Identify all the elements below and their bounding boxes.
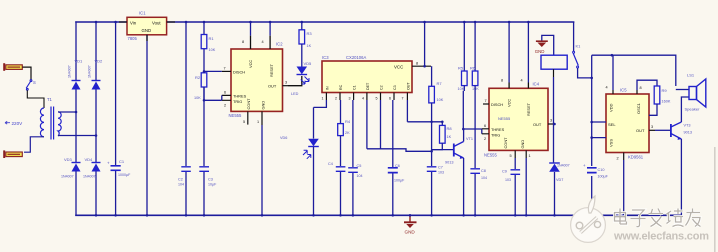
svg-text:2: 2 — [335, 97, 337, 101]
svg-text:VT1: VT1 — [466, 137, 473, 141]
svg-text:3: 3 — [349, 97, 351, 101]
svg-text:GND: GND — [535, 49, 545, 54]
svg-text:DISCH: DISCH — [491, 102, 503, 107]
svg-text:7: 7 — [402, 97, 404, 101]
svg-text:R6: R6 — [470, 66, 476, 71]
svg-text:104: 104 — [357, 174, 363, 178]
svg-text:6: 6 — [224, 91, 226, 95]
watermark logo circle — [571, 196, 606, 242]
transistor VT1 — [432, 137, 473, 165]
wire IC3 pin7 stub — [402, 93, 408, 122]
wire R1 to R2 — [203, 49, 205, 73]
wire C2 column — [185, 22, 187, 215]
svg-text:LS1: LS1 — [687, 73, 695, 78]
wire VT1 emitter column — [463, 158, 465, 215]
label ~220V — [5, 121, 23, 126]
svg-text:9013: 9013 — [684, 131, 692, 135]
svg-text:C3: C3 — [393, 85, 397, 90]
wire secondary bottom tap — [58, 135, 96, 137]
svg-text:R2: R2 — [195, 75, 201, 80]
wire supply to speaker top — [592, 55, 676, 86]
svg-text:R7: R7 — [437, 81, 443, 86]
diode VD2 — [88, 59, 104, 90]
svg-text:www.elecfans.com: www.elecfans.com — [613, 231, 709, 243]
svg-text:3: 3 — [285, 81, 287, 85]
watermark right border — [714, 147, 716, 252]
svg-text:IC1: IC1 — [139, 11, 146, 16]
op IC3 CX20106A body — [322, 55, 412, 93]
svg-text:VCC: VCC — [507, 99, 512, 107]
svg-text:OUT: OUT — [636, 128, 645, 133]
svg-text:C1: C1 — [119, 159, 125, 164]
wire IC4 pin3 OUT — [548, 119, 554, 125]
svg-text:DET: DET — [366, 82, 370, 90]
wire IC1 gnd column — [146, 35, 148, 216]
svg-text:8: 8 — [242, 40, 244, 44]
svg-text:7805: 7805 — [128, 36, 138, 41]
svg-text:RESET: RESET — [269, 63, 274, 77]
resistor R8 — [432, 122, 453, 150]
resistor R7 — [429, 66, 444, 166]
diode VD3 — [61, 157, 81, 179]
switch S1 — [26, 80, 32, 91]
svg-text:TRIG: TRIG — [233, 99, 242, 104]
capacitor C3 — [199, 167, 217, 216]
op IC5 KD9561 body — [606, 88, 649, 160]
wire C1 column — [115, 22, 117, 215]
svg-text:100μF: 100μF — [598, 175, 609, 179]
svg-text:C8: C8 — [481, 169, 486, 173]
wire top +V rail — [76, 21, 574, 23]
svg-text:5: 5 — [243, 120, 245, 124]
svg-text:4: 4 — [262, 40, 264, 44]
wire IC3 pin8 VCC stub — [412, 62, 431, 67]
wire IC1 vin stub — [119, 21, 127, 23]
wire left bridge column A — [75, 22, 77, 215]
wire IC3 VCC rail column — [424, 22, 426, 66]
svg-text:RESET: RESET — [526, 102, 531, 116]
wire IC3 pin1 to receiver — [314, 93, 327, 108]
capacitor C8 — [470, 169, 487, 216]
svg-text:1N4007: 1N4007 — [61, 175, 74, 179]
svg-text:103: 103 — [505, 178, 511, 182]
svg-text:100μF: 100μF — [394, 179, 405, 183]
svg-text:R3: R3 — [307, 31, 313, 36]
plug X2 (neutral) — [3, 150, 22, 158]
wire relay output column — [591, 55, 593, 215]
capacitor C2 — [178, 167, 191, 187]
op IC2 NE555 body — [229, 42, 284, 119]
svg-text:NE555: NE555 — [484, 153, 497, 158]
svg-text:1N4007: 1N4007 — [557, 164, 570, 168]
wire VT1 collector column — [462, 91, 464, 142]
svg-text:Speaker: Speaker — [685, 107, 701, 112]
svg-text:OUT: OUT — [268, 84, 277, 89]
resistor R4 — [338, 119, 351, 166]
svg-text:C4: C4 — [328, 162, 333, 166]
wire IC5 bottom VSS column — [617, 153, 624, 216]
svg-text:DISCH: DISCH — [233, 69, 245, 74]
svg-text:2K: 2K — [345, 131, 350, 135]
wire IC5 left sel stubs — [592, 122, 606, 138]
wire IC4 pin6 pin2 tie — [482, 124, 489, 141]
svg-text:IN: IN — [326, 86, 330, 90]
svg-text:R5: R5 — [458, 66, 464, 71]
watermark glyph shao — [666, 209, 684, 227]
svg-text:CONT: CONT — [246, 98, 251, 110]
svg-text:104: 104 — [178, 183, 184, 187]
wire IC4 pin8 VCC stub — [501, 22, 509, 88]
svg-text:VSS: VSS — [609, 139, 614, 147]
svg-text:1K: 1K — [447, 135, 452, 139]
svg-text:5: 5 — [376, 97, 378, 101]
svg-text:VD5: VD5 — [304, 61, 313, 66]
svg-text:VCC: VCC — [394, 65, 403, 70]
svg-text:C10: C10 — [598, 168, 605, 172]
wire IC2 pin5 CONT stub — [243, 111, 248, 124]
svg-text:IC2: IC2 — [276, 42, 283, 47]
photodiode VD6 receiver — [280, 107, 319, 215]
wire IC5 VDD stub — [606, 55, 614, 94]
svg-text:C3: C3 — [208, 178, 213, 182]
wire IC4 pin1 GND column — [526, 150, 530, 215]
svg-text:C7: C7 — [438, 166, 443, 170]
svg-text:RC: RC — [339, 84, 343, 90]
wire IC4 pin7 DISCH stub — [483, 99, 489, 104]
svg-text:103: 103 — [438, 171, 444, 175]
svg-text:10K: 10K — [458, 87, 465, 91]
svg-text:R9: R9 — [662, 88, 668, 93]
wire VT3 emitter column — [680, 139, 682, 215]
wire IC5 OUT to VT3 base — [649, 125, 671, 130]
wire switch to transformer primary — [27, 90, 44, 108]
wire IC2 pin3 OUT to LED — [283, 76, 302, 96]
svg-text:7: 7 — [224, 67, 226, 71]
wire IC4 pin5 CONT stub — [510, 150, 516, 169]
watermark glyph fa — [649, 209, 664, 227]
svg-text:VD2: VD2 — [95, 59, 104, 64]
ground flag net GND top — [535, 35, 554, 55]
wire IC2 pin4 RESET stub — [262, 22, 271, 49]
watermark glyph zi — [631, 210, 646, 227]
wire IC3 pin4 stub — [362, 93, 367, 149]
ground symbol bottom — [404, 215, 417, 234]
svg-text:CX20106A: CX20106A — [346, 55, 366, 60]
svg-text:8: 8 — [416, 62, 418, 66]
svg-text:1: 1 — [322, 97, 324, 101]
wire pin7 OUT horizontal — [407, 121, 442, 123]
svg-text:3: 3 — [550, 119, 552, 123]
svg-text:5: 5 — [510, 154, 512, 158]
svg-text:6: 6 — [389, 97, 391, 101]
svg-text:2: 2 — [617, 157, 619, 161]
svg-text:C2: C2 — [178, 178, 183, 182]
capacitor C7 — [427, 166, 444, 216]
capacitor C10 — [583, 163, 609, 179]
svg-text:10μF: 10μF — [208, 183, 217, 187]
svg-text:NE555: NE555 — [229, 113, 242, 118]
svg-text:VD3: VD3 — [64, 157, 73, 162]
svg-text:220V: 220V — [12, 121, 24, 126]
speaker LS1 — [676, 73, 706, 112]
svg-text:3: 3 — [651, 125, 653, 129]
svg-text:1: 1 — [529, 154, 531, 158]
svg-text:2: 2 — [484, 137, 486, 141]
svg-text:C5: C5 — [357, 164, 362, 168]
wire VT3 collector to speaker — [681, 97, 689, 122]
svg-text:SEL: SEL — [608, 122, 616, 127]
svg-text:TRIG: TRIG — [491, 133, 500, 138]
svg-text:OSC1: OSC1 — [636, 102, 641, 114]
resistor R2 — [194, 73, 207, 100]
LED VD5 — [297, 44, 313, 84]
svg-text:4: 4 — [606, 86, 608, 90]
svg-text:KD9561: KD9561 — [628, 155, 644, 160]
resistor R3 — [299, 22, 312, 48]
svg-text:R4: R4 — [345, 119, 351, 124]
svg-text:S: S — [33, 80, 36, 85]
watermark glyph dian — [615, 209, 627, 225]
svg-text:CONT: CONT — [503, 137, 508, 149]
svg-text:+: + — [107, 161, 110, 166]
svg-text:OUT: OUT — [406, 82, 410, 90]
svg-text:1: 1 — [257, 120, 259, 124]
capacitor C6 — [388, 164, 405, 215]
svg-text:LED: LED — [291, 92, 299, 96]
resistor R9 — [649, 86, 671, 115]
wire IC2 pin6 pin2 tie — [204, 87, 231, 108]
relay K1 coil — [541, 55, 567, 163]
IC1 7805 regulator — [127, 11, 167, 42]
wire IC5 OSC top stub to R9 — [637, 80, 657, 94]
wire R2 to C3 node — [203, 87, 205, 166]
resistor R5 — [458, 22, 468, 91]
wire primary bottom to bottom plug — [24, 137, 44, 152]
svg-text:10K: 10K — [194, 96, 201, 100]
svg-text:2: 2 — [224, 104, 226, 108]
wire IC2 pin7 DISCH — [204, 67, 231, 72]
wire IC2 pin8 VCC stub — [242, 22, 251, 49]
svg-text:VD1: VD1 — [75, 59, 84, 64]
resistor R6 — [470, 22, 479, 168]
svg-text:Vin: Vin — [130, 20, 137, 25]
transformer T1 — [40, 107, 61, 140]
svg-text:VT3: VT3 — [684, 124, 691, 128]
wire plug to switch — [23, 67, 32, 79]
svg-text:THRES: THRES — [491, 127, 505, 132]
wire pins 4-5 tie to base node — [367, 149, 432, 152]
svg-text:+: + — [583, 163, 586, 168]
svg-text:4: 4 — [521, 79, 523, 83]
svg-text:THRES: THRES — [233, 93, 247, 98]
svg-text:IC3: IC3 — [322, 55, 329, 60]
wire collector to IC4 trigger — [463, 129, 482, 134]
wire IC3 pin5 stub — [376, 93, 381, 149]
wire IC3 pin6 column — [389, 93, 394, 168]
capacitor C4 — [328, 162, 345, 215]
svg-text:K1: K1 — [576, 44, 582, 49]
svg-text:7: 7 — [485, 99, 487, 103]
svg-text:C1: C1 — [353, 85, 357, 90]
svg-text:GND: GND — [142, 28, 152, 33]
svg-text:9013: 9013 — [445, 161, 453, 165]
plug X1 (line) — [3, 63, 22, 71]
svg-text:160K: 160K — [662, 100, 671, 104]
svg-text:VD6: VD6 — [280, 136, 287, 140]
capacitor C9 — [502, 170, 520, 216]
svg-text:VCC: VCC — [248, 60, 253, 68]
transistor VT3 — [671, 122, 692, 140]
resistor R1 — [201, 22, 216, 52]
svg-text:IC4: IC4 — [533, 82, 540, 87]
wire bottom rail — [76, 214, 681, 216]
svg-text:OUT: OUT — [533, 122, 542, 127]
svg-text:R1: R1 — [209, 36, 215, 41]
svg-text:VD4: VD4 — [85, 157, 94, 162]
wire IC4 pin4 RESET stub — [521, 22, 529, 88]
svg-text:104: 104 — [481, 176, 487, 180]
svg-text:VD7: VD7 — [556, 178, 563, 182]
svg-text:6: 6 — [484, 124, 486, 128]
svg-text:GND: GND — [520, 140, 525, 149]
svg-text:GND: GND — [405, 230, 416, 235]
svg-text:Vout: Vout — [152, 20, 161, 25]
svg-text:8: 8 — [640, 86, 642, 90]
svg-text:T1: T1 — [47, 97, 53, 102]
op IC4 NE555 body — [484, 82, 548, 158]
svg-text:10K: 10K — [437, 98, 444, 102]
diode VD7 — [549, 163, 569, 215]
svg-text:IC5: IC5 — [620, 88, 627, 93]
svg-text:C9: C9 — [502, 170, 507, 174]
wire left bridge column B — [95, 22, 97, 215]
diode VD1 — [68, 59, 84, 90]
svg-text:1N4007: 1N4007 — [68, 65, 72, 78]
svg-text:10K: 10K — [209, 48, 216, 52]
svg-text:C6: C6 — [395, 164, 400, 168]
wire IC3 pin2 stub — [335, 93, 341, 124]
svg-text:1K: 1K — [307, 44, 312, 48]
svg-text:NE555: NE555 — [498, 116, 511, 121]
svg-text:1000μF: 1000μF — [118, 173, 131, 177]
svg-text:VDD: VDD — [609, 103, 614, 112]
wire IC3 pin3 column — [349, 93, 354, 168]
svg-text:1N4007: 1N4007 — [88, 65, 92, 78]
wire IC1 vout stub — [167, 21, 175, 23]
svg-text:8: 8 — [501, 79, 503, 83]
svg-text:GND: GND — [261, 101, 266, 110]
svg-text:C2: C2 — [380, 85, 384, 90]
capacitor C1 — [107, 159, 131, 177]
wire secondary top tap — [58, 111, 76, 113]
svg-text:4: 4 — [362, 97, 364, 101]
watermark glyph you — [686, 209, 701, 227]
wire IC2 pin1 GND column — [257, 111, 262, 215]
svg-text:1N4007: 1N4007 — [83, 175, 96, 179]
diode VD4 — [83, 157, 101, 179]
capacitor C5 — [348, 164, 362, 215]
relay switch contact — [573, 22, 592, 78]
svg-text:R8: R8 — [447, 126, 453, 131]
